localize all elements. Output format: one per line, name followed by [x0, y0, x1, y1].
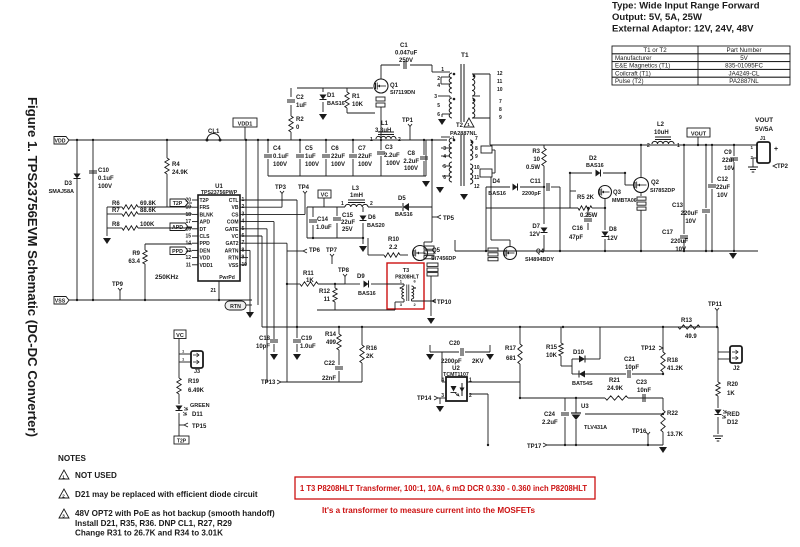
- svg-text:12V: 12V: [607, 236, 618, 242]
- svg-text:12: 12: [185, 255, 191, 261]
- svg-text:100V: 100V: [386, 161, 400, 167]
- svg-text:R18: R18: [667, 358, 679, 364]
- svg-text:0.25W: 0.25W: [580, 213, 598, 219]
- svg-text:21: 21: [210, 288, 216, 294]
- svg-text:10nF: 10nF: [637, 388, 651, 394]
- svg-text:Part Number: Part Number: [726, 47, 761, 54]
- svg-text:7: 7: [475, 136, 478, 142]
- svg-text:TP14: TP14: [417, 396, 432, 402]
- svg-text:C16: C16: [572, 226, 584, 232]
- svg-text:1: 1: [341, 201, 344, 207]
- svg-text:GATE: GATE: [225, 227, 239, 233]
- svg-text:3.3uH: 3.3uH: [375, 128, 391, 134]
- svg-text:0.047uF: 0.047uF: [395, 51, 418, 57]
- svg-text:22uF: 22uF: [358, 154, 372, 160]
- svg-text:VC: VC: [232, 234, 239, 240]
- svg-text:J3: J3: [194, 369, 200, 375]
- svg-text:ARTN: ARTN: [225, 248, 239, 254]
- svg-text:2K: 2K: [366, 354, 374, 360]
- svg-text:R6: R6: [112, 201, 120, 207]
- svg-text:835-01095FC: 835-01095FC: [725, 63, 763, 70]
- svg-text:R12: R12: [319, 289, 331, 295]
- svg-text:SI7852DP: SI7852DP: [650, 188, 675, 194]
- svg-text:SMAJ58A: SMAJ58A: [49, 189, 74, 195]
- svg-text:TP17: TP17: [527, 444, 542, 450]
- svg-text:2: 2: [647, 143, 650, 149]
- svg-text:D6: D6: [368, 215, 376, 221]
- svg-text:11: 11: [324, 297, 331, 303]
- svg-text:NOTES: NOTES: [58, 454, 86, 463]
- svg-text:TP10: TP10: [437, 300, 452, 306]
- svg-text:PPD: PPD: [172, 249, 183, 255]
- svg-text:L2: L2: [657, 122, 665, 128]
- svg-text:6.49K: 6.49K: [188, 388, 205, 394]
- svg-text:681: 681: [506, 356, 517, 362]
- svg-text:100V: 100V: [358, 162, 372, 168]
- svg-text:69.8K: 69.8K: [140, 201, 157, 207]
- svg-text:D7: D7: [532, 224, 540, 230]
- svg-text:SI7119DN: SI7119DN: [390, 90, 415, 96]
- svg-text:22uF: 22uF: [716, 185, 730, 191]
- svg-text:220uF: 220uF: [681, 211, 699, 217]
- svg-text:100V: 100V: [331, 162, 345, 168]
- svg-text:R22: R22: [667, 411, 679, 417]
- svg-text:C12: C12: [717, 177, 729, 183]
- svg-text:TP9: TP9: [112, 282, 124, 288]
- svg-text:1.0uF: 1.0uF: [300, 344, 316, 350]
- svg-text:63.4: 63.4: [128, 259, 140, 265]
- svg-text:11: 11: [474, 175, 480, 181]
- svg-text:1K: 1K: [306, 278, 314, 284]
- svg-text:Pulse (T2): Pulse (T2): [615, 78, 644, 85]
- svg-text:C2: C2: [296, 95, 304, 101]
- svg-text:2.2uF: 2.2uF: [542, 420, 558, 426]
- svg-text:5V: 5V: [740, 55, 748, 62]
- svg-text:T2P: T2P: [200, 198, 210, 204]
- svg-text:10: 10: [533, 157, 540, 163]
- svg-text:BLNK: BLNK: [200, 212, 214, 218]
- svg-text:C14: C14: [317, 217, 329, 223]
- svg-text:D8: D8: [609, 227, 617, 233]
- svg-text:VDD1: VDD1: [238, 121, 253, 127]
- svg-text:48V OPT2 with PoE as hot backu: 48V OPT2 with PoE as hot backup (smooth …: [75, 509, 275, 518]
- svg-text:9: 9: [499, 115, 502, 121]
- svg-text:TP12: TP12: [641, 346, 656, 352]
- svg-text:TP11: TP11: [708, 302, 723, 308]
- svg-text:Type: Wide Input Range Forward: Type: Wide Input Range Forward: [612, 1, 760, 12]
- svg-text:BAS16: BAS16: [586, 163, 604, 169]
- svg-text:11: 11: [497, 79, 503, 85]
- svg-text:3: 3: [443, 146, 446, 152]
- svg-text:7: 7: [499, 99, 502, 105]
- svg-text:U3: U3: [581, 404, 589, 410]
- svg-text:E&E Magnetics (T1): E&E Magnetics (T1): [615, 63, 670, 70]
- svg-text:2200pF: 2200pF: [441, 359, 462, 365]
- svg-text:12: 12: [474, 184, 480, 190]
- svg-text:1: 1: [441, 67, 444, 73]
- svg-text:C8: C8: [407, 151, 415, 157]
- svg-text:T1: T1: [461, 52, 469, 59]
- svg-text:D10: D10: [573, 350, 585, 356]
- svg-text:22nF: 22nF: [322, 376, 336, 382]
- svg-text:15: 15: [185, 234, 191, 240]
- svg-text:10: 10: [474, 165, 480, 171]
- svg-text:R9: R9: [132, 251, 140, 257]
- svg-text:D2: D2: [589, 156, 597, 162]
- svg-text:Coilcraft (T1): Coilcraft (T1): [615, 70, 651, 77]
- svg-text:13: 13: [185, 248, 191, 254]
- svg-text:BAS16: BAS16: [358, 291, 376, 297]
- svg-text:R10: R10: [388, 237, 400, 243]
- svg-text:TCMT1107: TCMT1107: [443, 372, 469, 378]
- svg-text:D21 may be replaced with effic: D21 may be replaced with efficient diode…: [75, 490, 258, 499]
- svg-text:2200pF: 2200pF: [522, 191, 542, 197]
- svg-text:R16: R16: [366, 346, 378, 352]
- svg-text:10V: 10V: [724, 166, 735, 172]
- svg-text:BAS16: BAS16: [488, 191, 506, 197]
- svg-text:100V: 100V: [404, 166, 418, 172]
- svg-text:Q2: Q2: [651, 180, 660, 186]
- svg-text:SI4894BDY: SI4894BDY: [525, 257, 554, 263]
- svg-text:1: 1: [677, 143, 680, 149]
- svg-text:L1: L1: [381, 121, 389, 127]
- svg-text:100K: 100K: [140, 222, 155, 228]
- svg-text:Manufacturer: Manufacturer: [615, 55, 651, 62]
- svg-text:R17: R17: [505, 346, 517, 352]
- svg-text:VDD: VDD: [55, 138, 66, 144]
- svg-text:D9: D9: [357, 274, 365, 280]
- svg-text:PPD: PPD: [200, 241, 211, 247]
- svg-text:R20: R20: [727, 382, 739, 388]
- svg-text:C4: C4: [273, 146, 281, 152]
- svg-text:R5 2K: R5 2K: [577, 195, 595, 201]
- svg-text:TP16: TP16: [632, 429, 647, 435]
- svg-text:41.2K: 41.2K: [667, 366, 684, 372]
- svg-text:TP13: TP13: [261, 380, 276, 386]
- svg-text:2.2: 2.2: [389, 245, 398, 251]
- svg-text:DEN: DEN: [200, 248, 211, 254]
- svg-text:CS: CS: [232, 212, 240, 218]
- svg-text:+: +: [774, 146, 778, 153]
- svg-text:RTN: RTN: [230, 304, 241, 310]
- svg-text:Install D21, R35, R36. DNP CL1: Install D21, R35, R36. DNP CL1, R27, R29: [75, 519, 232, 528]
- svg-text:17: 17: [185, 219, 191, 225]
- svg-text:VC: VC: [176, 333, 184, 339]
- svg-text:10pF: 10pF: [625, 365, 639, 371]
- svg-text:12: 12: [497, 71, 503, 77]
- svg-text:VOUT: VOUT: [755, 117, 773, 124]
- svg-text:D12: D12: [727, 420, 739, 426]
- svg-text:Change R31 to 26.7K and R34 to: Change R31 to 26.7K and R34 to 3.01K: [75, 529, 223, 538]
- svg-text:VDD: VDD: [200, 256, 211, 262]
- svg-text:0.1uF: 0.1uF: [98, 176, 114, 182]
- svg-text:APD: APD: [200, 220, 211, 226]
- svg-text:4: 4: [443, 154, 446, 160]
- svg-text:C21: C21: [624, 357, 636, 363]
- svg-text:D1: D1: [327, 93, 335, 99]
- svg-text:C1: C1: [400, 43, 408, 49]
- svg-text:1.0uF: 1.0uF: [316, 225, 332, 231]
- svg-text:COM: COM: [227, 220, 239, 226]
- svg-text:24.9K: 24.9K: [172, 170, 189, 176]
- svg-text:100V: 100V: [273, 162, 287, 168]
- svg-text:C9: C9: [724, 150, 732, 156]
- svg-text:47pF: 47pF: [569, 235, 583, 241]
- svg-text:R8: R8: [112, 222, 120, 228]
- svg-text:Q3: Q3: [613, 190, 622, 196]
- svg-text:22uF: 22uF: [331, 154, 345, 160]
- svg-text:D11: D11: [192, 412, 203, 418]
- svg-text:BAT54S: BAT54S: [572, 381, 593, 387]
- svg-text:13.7K: 13.7K: [667, 432, 684, 438]
- svg-text:BAS16: BAS16: [327, 101, 345, 107]
- svg-text:TP2: TP2: [777, 164, 789, 170]
- svg-text:C13: C13: [672, 203, 684, 209]
- svg-text:2: 2: [437, 76, 440, 82]
- svg-text:8: 8: [475, 146, 478, 152]
- svg-text:D5: D5: [398, 196, 406, 202]
- svg-text:20: 20: [185, 198, 191, 204]
- svg-text:88.6K: 88.6K: [140, 208, 157, 214]
- svg-text:5: 5: [443, 164, 446, 170]
- svg-text:11: 11: [186, 262, 192, 268]
- svg-text:APD: APD: [172, 225, 183, 231]
- svg-text:R21: R21: [609, 378, 621, 384]
- svg-text:D4: D4: [492, 179, 500, 185]
- svg-text:R19: R19: [188, 379, 200, 385]
- svg-text:GAT2: GAT2: [226, 241, 239, 247]
- svg-text:T3: T3: [403, 268, 409, 274]
- svg-text:R15: R15: [546, 345, 558, 351]
- svg-text:BAS16: BAS16: [395, 212, 413, 218]
- svg-text:External Adaptor: 12V, 24V, 48: External Adaptor: 12V, 24V, 48V: [612, 24, 754, 35]
- svg-text:1: 1: [370, 137, 373, 143]
- svg-text:1: 1: [469, 378, 472, 384]
- svg-text:22uF: 22uF: [341, 220, 355, 226]
- svg-text:R13: R13: [681, 318, 693, 324]
- svg-text:12V: 12V: [529, 232, 540, 238]
- svg-text:C17: C17: [662, 230, 674, 236]
- svg-text:TP6: TP6: [309, 248, 321, 254]
- svg-text:10K: 10K: [546, 353, 558, 359]
- svg-text:TP7: TP7: [326, 248, 338, 254]
- svg-text:PA2887NL: PA2887NL: [729, 78, 759, 85]
- svg-text:VOUT: VOUT: [691, 131, 707, 137]
- svg-text:TP15: TP15: [192, 424, 207, 430]
- svg-text:T2: T2: [456, 123, 464, 129]
- svg-text:0.5W: 0.5W: [526, 165, 540, 171]
- svg-text:J2: J2: [733, 366, 740, 372]
- svg-text:9: 9: [475, 154, 478, 160]
- svg-text:C18: C18: [259, 336, 271, 342]
- svg-text:R3: R3: [532, 149, 540, 155]
- svg-text:TP5: TP5: [443, 216, 455, 222]
- svg-text:0.1uF: 0.1uF: [273, 154, 289, 160]
- svg-text:18: 18: [185, 212, 191, 218]
- svg-text:DT: DT: [200, 227, 207, 233]
- svg-text:C5: C5: [305, 146, 313, 152]
- svg-text:CL1: CL1: [208, 129, 220, 135]
- svg-text:MMBTA06: MMBTA06: [612, 198, 637, 204]
- svg-text:TPS23756PWP: TPS23756PWP: [201, 190, 238, 196]
- svg-text:C23: C23: [636, 380, 648, 386]
- svg-text:T2P: T2P: [173, 201, 183, 207]
- svg-text:FRS: FRS: [200, 205, 211, 211]
- svg-text:2: 2: [398, 137, 401, 143]
- svg-text:TP1: TP1: [402, 118, 414, 124]
- svg-text:2.2uF: 2.2uF: [403, 159, 419, 165]
- svg-text:C7: C7: [358, 146, 366, 152]
- svg-text:VC: VC: [321, 193, 329, 199]
- svg-text:NOT USED: NOT USED: [75, 471, 117, 480]
- svg-text:Si7456DP: Si7456DP: [431, 256, 456, 262]
- svg-text:10K: 10K: [352, 102, 364, 108]
- svg-text:19: 19: [185, 205, 191, 211]
- svg-text:100V: 100V: [98, 184, 112, 190]
- svg-text:2KV: 2KV: [472, 359, 484, 365]
- svg-text:10V: 10V: [717, 193, 728, 199]
- svg-text:1K: 1K: [727, 391, 735, 397]
- svg-text:10pF: 10pF: [256, 344, 270, 350]
- svg-text:C22: C22: [324, 361, 336, 367]
- svg-text:250KHz: 250KHz: [155, 274, 179, 281]
- svg-text:6: 6: [437, 112, 440, 118]
- svg-text:R7: R7: [112, 208, 120, 214]
- svg-text:T2P: T2P: [177, 439, 187, 445]
- svg-text:1 T3 P8208HLT Transformer, 100: 1 T3 P8208HLT Transformer, 100:1, 10A, 6…: [300, 484, 587, 493]
- svg-text:100V: 100V: [305, 162, 319, 168]
- svg-text:C6: C6: [331, 146, 339, 152]
- svg-text:49.9: 49.9: [685, 334, 697, 340]
- svg-text:C15: C15: [342, 213, 354, 219]
- svg-text:CLS: CLS: [200, 234, 211, 240]
- svg-text:CTL: CTL: [229, 198, 239, 204]
- svg-text:JA4249-CL: JA4249-CL: [729, 70, 761, 77]
- svg-text:D3: D3: [64, 181, 72, 187]
- svg-text:Q4: Q4: [536, 249, 545, 255]
- svg-text:R2: R2: [296, 117, 304, 123]
- svg-text:L3: L3: [352, 186, 360, 192]
- svg-text:Q1: Q1: [390, 83, 399, 89]
- svg-text:Figure 1. TPS23756EVM Schemati: Figure 1. TPS23756EVM Schematic (DC-DC C…: [25, 97, 40, 437]
- svg-text:10V: 10V: [685, 219, 696, 225]
- svg-text:VSS: VSS: [228, 263, 239, 269]
- svg-text:It's a transformer to measure: It's a transformer to measure current in…: [322, 506, 536, 515]
- svg-text:RTN: RTN: [228, 256, 239, 262]
- svg-text:C3: C3: [385, 145, 393, 151]
- svg-text:TP4: TP4: [298, 185, 310, 191]
- svg-text:10: 10: [497, 87, 503, 93]
- svg-text:R11: R11: [303, 271, 314, 277]
- svg-text:C20: C20: [449, 341, 461, 347]
- svg-text:VSS: VSS: [55, 298, 66, 304]
- svg-text:5: 5: [437, 103, 440, 109]
- svg-text:C11: C11: [530, 179, 541, 185]
- svg-text:3: 3: [434, 94, 437, 100]
- svg-text:1mH: 1mH: [350, 193, 363, 199]
- svg-text:BAS20: BAS20: [367, 223, 385, 229]
- svg-text:16: 16: [185, 226, 191, 232]
- svg-text:5V/5A: 5V/5A: [755, 126, 773, 133]
- svg-text:250V: 250V: [399, 58, 413, 64]
- svg-text:24.9K: 24.9K: [607, 386, 624, 392]
- svg-text:VDD1: VDD1: [200, 263, 214, 269]
- svg-text:TP3: TP3: [275, 185, 287, 191]
- svg-text:25V: 25V: [342, 227, 353, 233]
- svg-text:Output: 5V, 5A, 25W: Output: 5V, 5A, 25W: [612, 12, 702, 23]
- svg-text:1uF: 1uF: [305, 154, 316, 160]
- svg-text:C24: C24: [544, 412, 556, 418]
- svg-text:T1 or T2: T1 or T2: [643, 47, 667, 54]
- svg-text:2.2uF: 2.2uF: [384, 153, 400, 159]
- svg-text:14: 14: [185, 241, 191, 247]
- svg-text:499: 499: [326, 340, 337, 346]
- svg-text:GREEN: GREEN: [190, 403, 210, 409]
- svg-text:U1: U1: [215, 184, 223, 190]
- svg-text:1uF: 1uF: [296, 103, 307, 109]
- svg-text:2: 2: [370, 201, 373, 207]
- svg-text:TLV431A: TLV431A: [584, 425, 607, 431]
- svg-text:RED: RED: [727, 412, 740, 418]
- svg-text:TP8: TP8: [338, 268, 350, 274]
- svg-text:C19: C19: [301, 336, 313, 342]
- svg-text:6: 6: [443, 175, 446, 181]
- svg-text:220uF: 220uF: [671, 239, 689, 245]
- svg-text:R4: R4: [172, 162, 180, 168]
- svg-text:8: 8: [499, 107, 502, 113]
- svg-text:VB: VB: [232, 205, 239, 211]
- svg-text:10uH: 10uH: [654, 130, 669, 136]
- svg-text:4: 4: [437, 83, 440, 89]
- svg-text:22uF: 22uF: [722, 158, 736, 164]
- svg-text:R1: R1: [352, 94, 360, 100]
- svg-text:PwrPd: PwrPd: [219, 275, 235, 281]
- svg-text:R14: R14: [325, 332, 337, 338]
- svg-text:C10: C10: [98, 168, 110, 174]
